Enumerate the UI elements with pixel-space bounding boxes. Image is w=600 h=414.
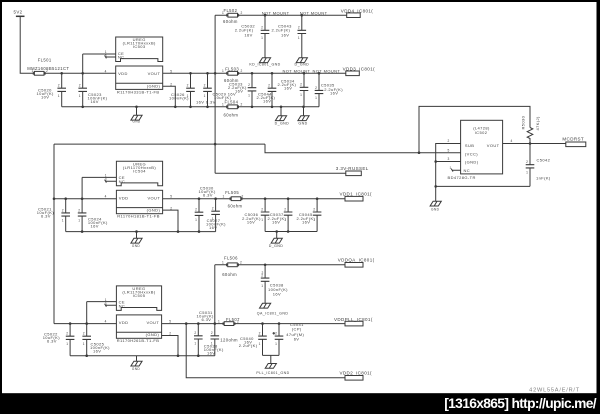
svg-text:5: 5 (170, 69, 172, 73)
wire 3.3V-RUSSEL branch (215, 172, 346, 174)
svg-text:1: 1 (79, 94, 81, 98)
svg-text:10uF(K): 10uF(K) (214, 95, 232, 100)
wire IC504 VOUT rail 1.8V (163, 198, 345, 200)
svg-text:GND: GND (132, 244, 141, 248)
wire C5040/C5041 gnd link (263, 355, 280, 363)
ground GND-1b (298, 116, 309, 126)
wire section3 bottom rail (70, 355, 215, 357)
svg-text:(CP): (CP) (292, 327, 302, 332)
svg-text:16V: 16V (273, 292, 281, 297)
wire IC504 GND pin to bottom rail (163, 210, 178, 232)
svg-text:3: 3 (105, 178, 107, 182)
ferrite bead FL505 (223, 190, 244, 209)
svg-text:4: 4 (105, 320, 107, 324)
svg-text:16V: 16V (235, 89, 243, 94)
svg-text:2: 2 (66, 332, 68, 336)
svg-text:NC: NC (119, 303, 126, 308)
svg-text:120ohm: 120ohm (220, 338, 238, 343)
svg-text:10V: 10V (41, 94, 49, 99)
svg-text:VDD: VDD (119, 195, 129, 200)
svg-text:2: 2 (300, 83, 302, 87)
svg-text:1: 1 (298, 36, 300, 40)
net label VDDPLL_IC801 (334, 317, 373, 326)
power source 5V2 (14, 10, 25, 17)
capacitor C5042 (526, 144, 551, 187)
capacitor C5034 (not mounted) (278, 73, 309, 107)
svg-text:2: 2 (78, 208, 80, 212)
svg-text:6.3V: 6.3V (41, 214, 51, 219)
junction dots input rail 1 (62, 72, 83, 75)
svg-text:R1170H331B-T1-FB: R1170H331B-T1-FB (117, 89, 160, 94)
svg-text:NC: NC (464, 168, 471, 173)
capacitor C5041 polarized marks (273, 332, 276, 335)
net label VDD3_IC801 (343, 66, 376, 75)
junction dots IC502 gnd joins (434, 162, 437, 187)
svg-text:NOT MOUNT: NOT MOUNT (313, 69, 341, 74)
svg-text:1: 1 (195, 218, 197, 222)
capacitor C5025 (82, 302, 110, 356)
svg-text:3.3V-RUSSEL: 3.3V-RUSSEL (336, 166, 369, 171)
svg-text:2: 2 (259, 332, 261, 336)
wire riser to FL506 row (214, 265, 216, 324)
svg-text:2: 2 (242, 195, 244, 199)
svg-text:FL503: FL503 (225, 66, 239, 71)
capacitor C5023 (78, 54, 107, 107)
svg-text:100nF(K): 100nF(K) (169, 96, 189, 101)
svg-text:2: 2 (194, 331, 196, 335)
svg-text:1: 1 (526, 171, 528, 175)
svg-text:VDDQA_IC801(: VDDQA_IC801( (338, 257, 375, 262)
wire 3.3V step to IC502 VCC (265, 144, 461, 153)
svg-text:1: 1 (261, 284, 263, 288)
wire 3.3V distribution to left bus (54, 144, 265, 324)
svg-text:VDD: VDD (119, 320, 129, 325)
svg-text:R1170H181B-T1-FB: R1170H181B-T1-FB (117, 214, 160, 219)
svg-text:1: 1 (212, 217, 214, 221)
ground below IC504 (136, 232, 138, 239)
wire IC502 GND pin (436, 161, 461, 163)
svg-text:5: 5 (169, 320, 171, 324)
svg-text:(GND): (GND) (147, 83, 161, 88)
svg-text:16V: 16V (330, 91, 338, 96)
ferrite bead FL501 (27, 58, 69, 76)
svg-text:16V: 16V (281, 33, 289, 38)
svg-text:16V: 16V (91, 99, 99, 104)
wire sec2 cap gnd segment (265, 231, 317, 233)
wire CE tie of IC503 (83, 53, 116, 55)
ferrite bead FL506 (222, 256, 242, 277)
capacitor C5040 (239, 324, 267, 356)
svg-text:2: 2 (187, 84, 189, 88)
svg-text:16V: 16V (244, 33, 252, 38)
svg-text:1: 1 (275, 342, 277, 346)
svg-text:1: 1 (450, 166, 452, 170)
svg-text:2: 2 (526, 160, 528, 164)
capacitor C5020 (37, 73, 67, 107)
net label 3.3V-RUSSEL (336, 166, 369, 175)
svg-text:GND: GND (431, 207, 440, 211)
ground GND below IC502 (430, 201, 441, 211)
ground GND-2 (131, 238, 142, 248)
svg-text:6.3V: 6.3V (202, 317, 212, 322)
svg-text:2: 2 (268, 84, 270, 88)
svg-text:5V2: 5V2 (14, 10, 23, 15)
wire 5V2 feed to FL501 (20, 16, 34, 73)
capacitor C5043 (not mounted) (272, 15, 307, 58)
svg-text:FL502: FL502 (224, 8, 238, 13)
svg-text:1nF(K): 1nF(K) (536, 176, 551, 181)
net label VDD1_IC801 (340, 191, 373, 201)
svg-text:2: 2 (448, 139, 450, 143)
svg-text:GND: GND (132, 367, 141, 371)
wire section3 input rail (54, 323, 116, 325)
svg-text:1: 1 (259, 342, 261, 346)
svg-text:KD_IC801_GND: KD_IC801_GND (249, 62, 280, 66)
svg-text:16V: 16V (91, 224, 99, 229)
svg-text:IC505: IC505 (133, 293, 146, 298)
svg-text:R5030: R5030 (521, 115, 526, 129)
capacitor C5027 (195, 199, 226, 232)
svg-text:NOT MOUNT: NOT MOUNT (262, 10, 290, 15)
capacitor C5037 (268, 199, 293, 232)
wire IC503 GND pin to bottom rail (163, 86, 175, 107)
svg-text:FL505: FL505 (225, 190, 239, 195)
svg-text:60ohm: 60ohm (228, 203, 243, 208)
svg-text:1: 1 (204, 94, 206, 98)
ground QA_IC801_GND (257, 303, 289, 315)
svg-text:QA_IC801_GND: QA_IC801_GND (257, 312, 289, 316)
svg-text:MCDRST: MCDRST (562, 136, 584, 141)
svg-text:2: 2 (58, 84, 60, 88)
svg-text:2: 2 (212, 207, 214, 211)
svg-text:1: 1 (194, 342, 196, 346)
svg-text:2: 2 (241, 103, 243, 107)
svg-text:3: 3 (105, 54, 107, 58)
svg-text:VDDPLL_IC801(: VDDPLL_IC801( (334, 317, 373, 322)
svg-text:PLL_IC801_GND: PLL_IC801_GND (256, 371, 289, 375)
svg-text:2: 2 (261, 207, 263, 211)
voltage regulator U-IC504 (IC504) (116, 161, 162, 218)
svg-text:IC502: IC502 (475, 130, 488, 135)
svg-text:16V 6.3V: 16V 6.3V (196, 100, 216, 105)
svg-text:VDD3_IC801(: VDD3_IC801( (343, 66, 376, 71)
svg-text:2: 2 (248, 83, 250, 87)
svg-text:2: 2 (298, 26, 300, 30)
svg-text:1: 1 (218, 320, 220, 324)
svg-text:16V: 16V (272, 220, 280, 225)
svg-text:5: 5 (170, 195, 172, 199)
svg-text:2: 2 (261, 26, 263, 30)
svg-text:GND: GND (132, 119, 141, 123)
svg-text:2: 2 (211, 331, 213, 335)
svg-text:6V: 6V (294, 337, 300, 342)
svg-text:R1170H261B-T1-FB: R1170H261B-T1-FB (117, 338, 160, 343)
NC stub IC505 (105, 304, 117, 307)
svg-text:(VCC): (VCC) (465, 151, 478, 156)
wire CE tie of IC504 (82, 176, 116, 178)
svg-text:1: 1 (58, 94, 60, 98)
ferrite bead FL502 (222, 8, 243, 24)
capacitor C5041 (275, 322, 305, 355)
svg-text:1: 1 (222, 11, 224, 15)
svg-text:2: 2 (313, 207, 315, 211)
svg-text:VOUT: VOUT (147, 195, 160, 200)
svg-text:1: 1 (300, 93, 302, 97)
svg-text:4: 4 (511, 139, 513, 143)
junction dots 3.3V rail (191, 72, 320, 75)
junction dots VOUT node (529, 142, 532, 145)
wire IC502 VOUT to MCDRST (503, 143, 566, 145)
svg-text:VOUT: VOUT (487, 143, 500, 148)
svg-text:IC503: IC503 (133, 44, 146, 49)
svg-text:D_GND: D_GND (275, 121, 290, 125)
svg-text:D_GND: D_GND (295, 62, 310, 66)
svg-text:1: 1 (222, 69, 224, 73)
wire CE tie of IC505 (87, 301, 117, 303)
wire IC505 VOUT rail 2.6V (162, 323, 345, 325)
svg-text:VDD4_IC801(: VDD4_IC801( (341, 9, 374, 14)
junction dots mid junctions (214, 143, 217, 146)
wire section2 bottom rail (66, 231, 216, 233)
junction dots 1.8V rail (199, 197, 317, 200)
svg-text:FL504: FL504 (225, 100, 239, 105)
junction dots section2 in (54, 197, 82, 200)
svg-text:VDD: VDD (118, 71, 128, 76)
ground GND-3 (131, 361, 142, 371)
svg-text:IC504: IC504 (133, 168, 146, 173)
svg-text:2: 2 (315, 86, 317, 90)
svg-text:16V: 16V (93, 349, 101, 354)
svg-text:FL501: FL501 (38, 58, 52, 63)
svg-text:16V: 16V (302, 220, 310, 225)
capacitor C5024 (78, 177, 108, 231)
junction dots 2.6V rail (186, 322, 279, 325)
svg-text:2: 2 (284, 207, 286, 211)
capacitor C5028 (204, 324, 224, 356)
svg-text:FL506: FL506 (224, 256, 238, 261)
voltage regulator U-IC505 (IC505) (116, 286, 161, 343)
svg-text:2: 2 (195, 208, 197, 212)
svg-text:BD4728G-TR: BD4728G-TR (448, 175, 476, 180)
junction dots sec2 bottom (82, 230, 199, 233)
svg-text:3: 3 (105, 302, 107, 306)
wire FL506 row rail (215, 264, 345, 266)
svg-text:16V: 16V (247, 220, 255, 225)
ground taps section1 right (281, 107, 304, 116)
svg-text:60ohm: 60ohm (223, 19, 238, 24)
svg-text:VDD1_IC801(: VDD1_IC801( (340, 191, 373, 196)
NC stub IC504 (105, 180, 117, 183)
svg-text:SUB: SUB (465, 143, 474, 148)
svg-text:1: 1 (222, 103, 224, 107)
capacitor C5036 (242, 199, 269, 232)
ground below IC505 (136, 356, 138, 362)
svg-text:2: 2 (204, 84, 206, 88)
wire section2 input rail (54, 198, 116, 200)
ground PLL_IC801_GND (256, 364, 289, 376)
capacitor C5033 (228, 73, 256, 107)
capacitor C5026 (169, 73, 195, 107)
svg-text:1: 1 (315, 96, 317, 100)
svg-text:2: 2 (83, 332, 85, 336)
svg-text:1: 1 (32, 69, 34, 73)
ground GND-1 (131, 115, 142, 123)
svg-text:2: 2 (79, 84, 81, 88)
svg-text:2: 2 (46, 69, 48, 73)
wire IC505 GND pin to bottom rail (162, 336, 178, 356)
junction dots FL506 rail (264, 263, 267, 266)
junction dots VCC line (418, 151, 421, 154)
junction dots bottom rail 1 (83, 106, 304, 109)
wire IC503 VOUT rail 3.3V (163, 72, 346, 74)
svg-text:2: 2 (241, 69, 243, 73)
svg-text:1: 1 (223, 195, 225, 199)
svg-text:6.3V: 6.3V (47, 339, 57, 344)
svg-text:60ohm: 60ohm (224, 112, 239, 117)
svg-text:2: 2 (241, 11, 243, 15)
svg-text:5: 5 (448, 148, 450, 152)
svg-text:[1316x865] http://upic.me/: [1316x865] http://upic.me/ (444, 396, 597, 411)
ground D_GND-1 (275, 116, 290, 126)
svg-text:NC: NC (119, 179, 126, 184)
svg-text:1: 1 (83, 342, 85, 346)
junction dots section3 in (70, 322, 87, 325)
net label VDDQA_IC801 (338, 257, 375, 267)
NC stub IC503 (105, 55, 116, 58)
resistor R5030 (521, 115, 540, 143)
ground D_GND-top (295, 58, 310, 67)
wire IC502 SUB/GND vertical (436, 144, 461, 202)
svg-text:2: 2 (237, 320, 239, 324)
capacitor C5031 (194, 310, 214, 356)
ground tap D_GND sec2 (276, 232, 278, 239)
capacitor C5044 (257, 73, 277, 107)
ground D_GND-2 (269, 238, 284, 248)
svg-text:1: 1 (261, 218, 263, 222)
svg-text:2: 2 (240, 261, 242, 265)
svg-text:16V: 16V (263, 99, 271, 104)
net label VDD2_IC801 (340, 370, 373, 380)
junction dots sec3 bottom (87, 354, 199, 357)
svg-text:1: 1 (62, 219, 64, 223)
svg-text:GND: GND (298, 121, 307, 125)
svg-text:16V: 16V (284, 86, 292, 91)
NC stub IC502 (451, 169, 460, 172)
ferrite bead FL504 (222, 100, 243, 118)
svg-text:1: 1 (222, 261, 224, 265)
svg-text:C5042: C5042 (537, 158, 551, 163)
svg-text:2.2uF(K): 2.2uF(K) (239, 343, 258, 348)
svg-text:42WL55A/E/R/T: 42WL55A/E/R/T (529, 388, 580, 394)
svg-text:D_GND: D_GND (269, 244, 284, 248)
wire FL502 row rail (215, 14, 347, 16)
ferrite bead FL503 (222, 66, 243, 83)
junction dots sec2 capgnd (277, 230, 288, 233)
ferrite bead FL507 (218, 317, 240, 343)
capacitor C5021 (37, 199, 70, 232)
ground below IC503 (136, 107, 138, 116)
svg-text:NOT MOUNT: NOT MOUNT (300, 10, 328, 15)
footer watermark bar (0, 393, 600, 414)
svg-text:1: 1 (66, 342, 68, 346)
svg-text:60ohm: 60ohm (222, 272, 237, 277)
svg-text:1: 1 (248, 94, 250, 98)
wire VDD2 branch (186, 324, 345, 378)
capacitor C5029 (196, 73, 236, 107)
capacitor C5035 (not mounted) (315, 73, 344, 107)
capacitor C5022 (43, 324, 75, 356)
svg-text:NOT MOUNT: NOT MOUNT (283, 69, 311, 74)
svg-text:2: 2 (262, 271, 264, 275)
svg-text:VOUT: VOUT (148, 71, 161, 76)
svg-text:1: 1 (261, 36, 263, 40)
svg-text:4: 4 (105, 69, 107, 73)
svg-text:(GND): (GND) (147, 208, 161, 213)
net label MCDRST (562, 136, 585, 146)
svg-text:6.3V: 6.3V (203, 193, 213, 198)
wire R5030 branch (419, 106, 530, 152)
svg-text:NC: NC (118, 55, 125, 60)
svg-text:(GND): (GND) (465, 160, 479, 165)
svg-text:2: 2 (62, 208, 64, 212)
capacitor C5045 (297, 199, 322, 232)
svg-text:47K(J): 47K(J) (535, 116, 540, 130)
ground KD_IC801_GND (249, 58, 280, 67)
svg-text:VDD2_IC801(: VDD2_IC801( (340, 370, 373, 375)
svg-text:3: 3 (448, 157, 450, 161)
wire main 3.3V vertical bus (214, 15, 216, 173)
wire FL501 to IC503 VDD pin 4 (44, 72, 116, 74)
junction dots FL502 rail (265, 14, 302, 17)
capacitor C5032 (not mounted) (235, 15, 270, 58)
svg-text:(GND): (GND) (146, 332, 160, 337)
net label VDD4_IC801 (341, 9, 374, 18)
wire bottom rail section 1 (62, 106, 319, 108)
capacitor C5030 (199, 186, 220, 232)
IC U502 regulator (L4728) (448, 120, 503, 180)
svg-text:16V: 16V (207, 351, 215, 356)
svg-text:1: 1 (78, 219, 80, 223)
svg-text:2: 2 (275, 332, 277, 336)
wire IC502 ground return (436, 185, 530, 187)
svg-text:VOUT: VOUT (146, 320, 159, 325)
capacitor C5038 (261, 265, 288, 304)
voltage regulator U-IC503 (IC503) (116, 37, 163, 94)
svg-text:4: 4 (105, 195, 107, 199)
